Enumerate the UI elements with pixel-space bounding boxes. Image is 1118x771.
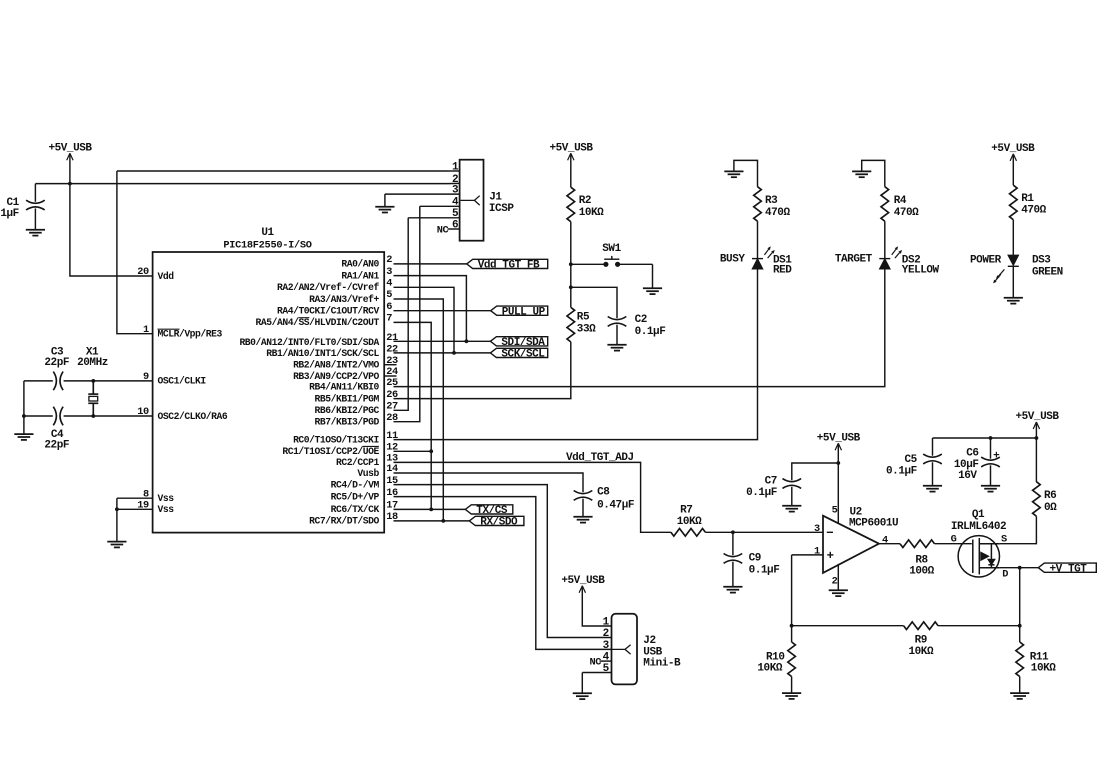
LED DS1 (RED) xyxy=(752,259,763,269)
wire R7 to U2 inverting input xyxy=(705,531,823,533)
wire U1 Vusb to C8 xyxy=(394,473,584,492)
wire J2 pin 5 to ground xyxy=(582,672,611,674)
svg-text:+5V_USB: +5V_USB xyxy=(48,142,92,154)
connector J1 female-pin symbol xyxy=(461,196,480,205)
svg-text:+5V_USB: +5V_USB xyxy=(561,575,605,587)
svg-text:4: 4 xyxy=(882,534,888,546)
svg-text:100Ω: 100Ω xyxy=(909,566,934,578)
power +5V_USB (R6) xyxy=(1033,422,1039,429)
wire to C2 xyxy=(571,287,617,318)
wire R4 to DS2 xyxy=(884,221,886,258)
svg-text:470Ω: 470Ω xyxy=(1021,204,1046,216)
svg-text:5: 5 xyxy=(386,289,392,301)
wire Vss to ground xyxy=(116,498,118,541)
svg-text:RC1/T1OSI/CCP2/UOE: RC1/T1OSI/CCP2/UOE xyxy=(282,446,379,457)
wire to C7 xyxy=(792,463,839,480)
capacitor C6 xyxy=(981,457,1000,460)
wire U1 RC2 Vdd_TGT_ADJ to R7 xyxy=(394,462,671,532)
svg-text:Vusb: Vusb xyxy=(357,468,379,479)
svg-text:OSC2/CLKO/RA6: OSC2/CLKO/RA6 xyxy=(158,411,228,422)
wire J1 ground stem xyxy=(384,194,386,206)
capacitor C2 xyxy=(608,317,627,320)
wire U1 Vss pin 8 xyxy=(117,497,153,499)
wire U1 RA5 to TX/CS net xyxy=(394,322,432,509)
net flag SDI/SDA xyxy=(490,337,547,346)
svg-text:RB5/KBI1/PGM: RB5/KBI1/PGM xyxy=(315,393,380,404)
wire R11 to ground xyxy=(1019,677,1021,693)
resistor R6 xyxy=(1033,482,1041,517)
net flag +V_TGT xyxy=(1038,563,1096,572)
wire R1 to DS3 xyxy=(1012,220,1014,256)
svg-text:R11: R11 xyxy=(1030,651,1049,663)
ground at C9 xyxy=(723,587,742,593)
svg-text:+5V_USB: +5V_USB xyxy=(991,143,1035,155)
U1 pin 24 stub xyxy=(384,375,396,377)
svg-text:SCK/SCL: SCK/SCL xyxy=(501,349,545,361)
wire U2 output to R8 xyxy=(879,543,900,545)
ground at C8 xyxy=(573,517,592,523)
svg-text:RC0/T1OSO/T13CKI: RC0/T1OSO/T13CKI xyxy=(293,434,379,445)
ground at J2 pin 5 xyxy=(573,693,592,699)
svg-text:R9: R9 xyxy=(915,634,927,646)
resistor R8 xyxy=(900,540,935,548)
capacitor C8 xyxy=(574,491,593,494)
svg-text:USB: USB xyxy=(643,646,662,658)
svg-text:0Ω: 0Ω xyxy=(1044,502,1057,514)
svg-text:R3: R3 xyxy=(765,195,778,207)
svg-text:C8: C8 xyxy=(597,487,610,499)
wire R3 to DS1 xyxy=(757,221,759,258)
svg-text:10µF: 10µF xyxy=(954,459,979,471)
wire J1 pin 4 (PGD) xyxy=(420,205,460,207)
capacitor C7 xyxy=(783,479,802,482)
svg-text:RB4/AN11/KBI0: RB4/AN11/KBI0 xyxy=(309,381,379,392)
svg-text:0.1µF: 0.1µF xyxy=(886,465,917,477)
svg-text:RB6/KBI2/PGC: RB6/KBI2/PGC xyxy=(315,405,380,416)
capacitor C5 xyxy=(923,454,942,457)
capacitor C4 xyxy=(53,407,56,426)
svg-text:TARGET: TARGET xyxy=(835,254,873,266)
wire node to R11 xyxy=(1019,626,1021,642)
svg-text:+5V_USB: +5V_USB xyxy=(549,142,593,154)
wire U2 pin 2 to ground xyxy=(837,564,839,590)
resistor R9 xyxy=(904,622,939,630)
wire crystal caps to ground xyxy=(23,381,25,434)
resistor R2 xyxy=(567,187,575,222)
svg-text:RED: RED xyxy=(773,265,792,277)
ground at J1 pin 3 xyxy=(375,207,394,213)
wire U2 + input to R9/R10 node xyxy=(791,555,793,626)
net flag RX/SDO xyxy=(469,516,524,525)
svg-text:RA3/AN3/Vref+: RA3/AN3/Vref+ xyxy=(309,294,379,305)
svg-text:+5V_USB: +5V_USB xyxy=(817,432,861,444)
svg-text:ICSP: ICSP xyxy=(489,203,514,215)
svg-text:RB7/KBI3/PGD: RB7/KBI3/PGD xyxy=(315,417,380,428)
wire U1 RC6 to TX/CS flag xyxy=(394,508,466,510)
wire DS3 to ground xyxy=(1012,266,1014,297)
node C7 branch junction xyxy=(836,461,840,465)
wire C4 to U1 OSC2 pin 10 xyxy=(64,415,153,417)
svg-text:Vss: Vss xyxy=(158,504,175,515)
node SCK/SCL junction xyxy=(452,351,456,355)
wire U1 RC1 stub to TX/CS net xyxy=(394,450,432,452)
wire J1 pin 3 to ground xyxy=(385,193,460,195)
wire +5V_USB to J2 pin 1 xyxy=(582,587,611,626)
svg-text:16V: 16V xyxy=(958,470,977,482)
wire C1 top stem xyxy=(34,184,36,202)
capacitor C9 xyxy=(724,554,743,557)
power +5V_USB (R1) xyxy=(1010,154,1016,161)
svg-text:C5: C5 xyxy=(904,454,917,466)
svg-text:R10: R10 xyxy=(766,651,784,663)
wire +5V_USB to R1 xyxy=(1012,156,1014,186)
node RX/SDO junction xyxy=(441,519,445,523)
svg-text:DS3: DS3 xyxy=(1032,254,1051,266)
wire DS1 to U1 RC0 pin 11 xyxy=(394,269,758,440)
wire J1 pin 2 stub xyxy=(448,182,460,184)
wire J1 pin 1 to U1 MCLR pin 1 xyxy=(117,171,153,334)
svg-text:7: 7 xyxy=(386,313,392,325)
svg-text:RB3/AN9/CCP2/VPO: RB3/AN9/CCP2/VPO xyxy=(293,371,379,382)
wire +5V_USB to R2 xyxy=(570,155,572,187)
ground at R3 (BUSY) xyxy=(724,171,743,177)
svg-text:Vdd: Vdd xyxy=(158,271,175,282)
svg-text:RC6/TX/CK: RC6/TX/CK xyxy=(331,504,380,515)
svg-text:RA5/AN4/SS/HLVDIN/C2OUT: RA5/AN4/SS/HLVDIN/C2OUT xyxy=(256,317,380,328)
ground at C2 xyxy=(607,345,626,351)
svg-text:RC5/D+/VP: RC5/D+/VP xyxy=(331,491,380,502)
svg-text:SDI/SDA: SDI/SDA xyxy=(501,337,545,349)
LED DS3 (GREEN) xyxy=(1008,255,1019,266)
svg-text:2: 2 xyxy=(386,254,392,266)
svg-text:G: G xyxy=(951,534,957,546)
ground at U2 pin 2 xyxy=(829,590,848,596)
capacitor C3 xyxy=(53,372,56,391)
wire drain node to R9/R11 node xyxy=(1019,568,1021,626)
svg-text:22: 22 xyxy=(386,344,398,356)
svg-text:R5: R5 xyxy=(577,312,590,324)
U1 RC1 UOE overline xyxy=(362,445,379,447)
wire U1 RC5 D+ to J2 pin 3 xyxy=(394,497,612,650)
resistor R3 xyxy=(754,187,762,222)
svg-text:2: 2 xyxy=(832,576,838,588)
crystal X1 xyxy=(88,381,98,416)
svg-text:21: 21 xyxy=(386,332,398,344)
svg-text:10KΩ: 10KΩ xyxy=(1031,663,1056,675)
LED DS2 (YELLOW) xyxy=(879,259,890,269)
net flag TX/CS xyxy=(465,505,513,514)
svg-text:C2: C2 xyxy=(635,314,647,326)
resistor R10 xyxy=(788,642,796,677)
wire OSC2 net left of C4 xyxy=(24,415,53,417)
wire U1 RC7 to RX/SDO flag xyxy=(394,520,470,522)
svg-text:RA2/AN2/Vref-/CVref: RA2/AN2/Vref-/CVref xyxy=(277,282,380,293)
node Vss junction xyxy=(115,507,119,511)
power +5V_USB (J2) xyxy=(579,586,585,593)
node SW1 branch junction xyxy=(569,262,573,266)
ground at crystal caps xyxy=(14,434,33,440)
switch SW1 xyxy=(571,256,653,266)
svg-text:0.47µF: 0.47µF xyxy=(597,500,634,512)
connector J2 female-pin symbol xyxy=(612,645,631,654)
wire U1 Vss pin 19 xyxy=(117,508,153,510)
op-amp U2 MCP6001U xyxy=(823,516,879,573)
net flag Vdd_TGT_FB xyxy=(467,259,548,268)
node TX/CS junction xyxy=(429,508,433,512)
svg-text:3: 3 xyxy=(386,266,392,278)
svg-text:IRLML6402: IRLML6402 xyxy=(951,521,1006,533)
svg-text:470Ω: 470Ω xyxy=(765,207,790,219)
connector J2 body xyxy=(612,614,638,685)
svg-text:C9: C9 xyxy=(749,552,761,564)
wire C3 to U1 OSC1 pin 9 xyxy=(64,380,153,382)
U1 pin 23 stub xyxy=(384,364,396,366)
svg-text:NC: NC xyxy=(589,657,601,669)
svg-text:1µF: 1µF xyxy=(0,208,18,220)
wire node to C9 xyxy=(732,532,734,555)
node C2 branch junction xyxy=(569,285,573,289)
wire J1 pin 1 stub xyxy=(448,170,460,172)
resistor R1 xyxy=(1010,185,1018,220)
wire U1 RA0 to Vdd_TGT_FB flag xyxy=(394,263,467,265)
transistor Q1 IRLML6402 (P-MOSFET) xyxy=(958,536,1000,577)
wire C5 top stem xyxy=(932,438,934,456)
wire R9 to R11 node xyxy=(938,625,1020,627)
wire U1 RA2 to SCK/SCL net xyxy=(394,287,455,353)
svg-text:MCP6001U: MCP6001U xyxy=(849,518,898,530)
wire DS2 to U1 RB4 pin 25 xyxy=(394,269,885,387)
wire U1 RA1 to SDI/SDA net xyxy=(394,276,467,342)
wire U1 RB1 to SCK/SCL flag xyxy=(394,352,491,354)
svg-text:TX/CS: TX/CS xyxy=(476,505,508,517)
svg-text:GREEN: GREEN xyxy=(1032,267,1063,279)
svg-text:3: 3 xyxy=(814,523,820,535)
ground at C6 xyxy=(981,486,1000,492)
wire C6 to ground xyxy=(990,465,992,485)
wire R2 to R5 (MCLR node) xyxy=(570,222,572,308)
wire J2 ground stem xyxy=(581,673,583,693)
resistor R7 xyxy=(671,529,706,537)
svg-text:RC7/RX/DT/SDO: RC7/RX/DT/SDO xyxy=(309,516,379,527)
node X1 bottom junction xyxy=(91,414,95,418)
svg-text:33Ω: 33Ω xyxy=(577,324,596,336)
power +5V_USB (U2) xyxy=(835,443,841,450)
J2 pin 4 NC stub xyxy=(600,660,612,662)
svg-text:Vdd_TGT_FB: Vdd_TGT_FB xyxy=(478,260,540,272)
wire C8 to ground xyxy=(582,499,584,517)
svg-text:OSC1/CLKI: OSC1/CLKI xyxy=(158,376,207,387)
ground at SW1 xyxy=(643,288,662,294)
svg-text:10KΩ: 10KΩ xyxy=(677,516,702,528)
capacitor C1 xyxy=(26,200,45,203)
svg-text:RB2/AN8/INT2/VMO: RB2/AN8/INT2/VMO xyxy=(293,360,379,371)
svg-text:R4: R4 xyxy=(894,195,907,207)
svg-text:22pF: 22pF xyxy=(44,357,69,369)
wire U1 RC4 D- to J2 pin 2 xyxy=(394,485,612,638)
node +5V/C5/C6 junction xyxy=(1035,436,1039,440)
svg-text:3: 3 xyxy=(603,640,610,652)
IC U1 PIC18F2550 body xyxy=(153,252,385,533)
ground at C1 xyxy=(26,230,45,236)
wire C9 to ground xyxy=(732,562,734,587)
wire Q1 drain to +V_TGT flag xyxy=(1000,567,1039,569)
ground at DS3 xyxy=(1004,298,1023,304)
node R9/R11 junction xyxy=(1018,624,1022,628)
wire C7 to ground xyxy=(791,487,793,506)
wire U1 RA3 to RX/SDO net xyxy=(394,299,444,521)
svg-text:RC4/D-/VM: RC4/D-/VM xyxy=(331,479,380,490)
svg-text:10KΩ: 10KΩ xyxy=(579,207,604,219)
svg-text:Mini-B: Mini-B xyxy=(643,658,681,670)
svg-text:C7: C7 xyxy=(765,476,777,488)
node R9/R10 junction xyxy=(790,624,794,628)
power +5V_USB (C1/Vdd) xyxy=(67,153,73,160)
node drain/R11 junction xyxy=(1018,566,1022,570)
svg-text:D: D xyxy=(1002,568,1008,580)
wire R8 to Q1 gate xyxy=(935,543,972,545)
svg-text:20MHz: 20MHz xyxy=(77,357,108,369)
svg-text:R2: R2 xyxy=(579,195,591,207)
svg-text:R1: R1 xyxy=(1021,193,1034,205)
svg-text:U2: U2 xyxy=(850,506,862,518)
svg-text:BUSY: BUSY xyxy=(720,254,745,266)
resistor R5 xyxy=(567,307,575,342)
C6 polarity plus sign xyxy=(994,452,1000,458)
svg-text:PIC18F2550-I/SO: PIC18F2550-I/SO xyxy=(223,240,311,252)
svg-text:Vss: Vss xyxy=(158,493,175,504)
ground at C7 xyxy=(782,506,801,512)
wire U2 non-inverting input xyxy=(792,554,823,556)
wire +5V_USB to U1 Vdd pin 20 xyxy=(70,155,153,276)
svg-text:2: 2 xyxy=(603,628,609,640)
svg-text:RA1/AN1: RA1/AN1 xyxy=(341,270,379,281)
net flag PULL_UP xyxy=(491,306,548,315)
wire +5V_USB to R6 xyxy=(1035,424,1037,482)
svg-text:YELLOW: YELLOW xyxy=(902,265,940,277)
ground at R4 (TARGET) xyxy=(852,171,871,177)
wire U1 RB0 to SDI/SDA flag xyxy=(394,340,491,342)
node R7/C9 junction xyxy=(731,530,735,534)
svg-text:MCLR/Vpp/RE3: MCLR/Vpp/RE3 xyxy=(158,329,223,340)
wire SW1 to ground xyxy=(652,264,654,288)
ground at U1 Vss xyxy=(107,542,126,548)
svg-text:+5V_USB: +5V_USB xyxy=(1015,411,1059,423)
svg-text:SW1: SW1 xyxy=(602,243,621,255)
node C4 left junction xyxy=(22,414,26,418)
connector J1 body xyxy=(460,160,484,241)
wire Q1 source to R6 xyxy=(1000,516,1037,544)
svg-text:POWER: POWER xyxy=(970,254,1002,266)
wire C2 to ground xyxy=(616,325,618,345)
svg-text:+V_TGT: +V_TGT xyxy=(1050,563,1088,575)
resistor R11 xyxy=(1016,642,1024,677)
svg-text:RC2/CCP1: RC2/CCP1 xyxy=(336,457,380,468)
ground at R11 xyxy=(1010,693,1029,699)
wire C5 to ground xyxy=(932,462,934,485)
ground at R10 xyxy=(782,693,801,699)
wire C6 top stem xyxy=(990,438,992,459)
svg-text:R8: R8 xyxy=(915,554,928,566)
wire +5V_USB to U2 pin 5 xyxy=(837,445,839,524)
svg-text:10KΩ: 10KΩ xyxy=(757,663,782,675)
svg-text:RB1/AN10/INT1/SCK/SCL: RB1/AN10/INT1/SCK/SCL xyxy=(266,348,379,359)
wire C1 / +5V_USB to J1 pin 2 xyxy=(35,183,447,185)
wire R10 node to R9 xyxy=(792,625,904,627)
wire OSC1 net left of C3 xyxy=(24,380,53,382)
node RC1/TX net junction xyxy=(429,449,433,453)
wire R5 to U1 RB5 pin 26 xyxy=(394,342,571,399)
resistor R4 xyxy=(881,187,889,222)
U1 RA5 SS overline xyxy=(298,317,309,319)
svg-text:22pF: 22pF xyxy=(44,440,69,452)
ground at C5 xyxy=(923,486,942,492)
svg-text:RA0/AN0: RA0/AN0 xyxy=(341,259,379,270)
node SDI/SDA junction xyxy=(465,339,469,343)
svg-text:RA4/T0CKI/C1OUT/RCV: RA4/T0CKI/C1OUT/RCV xyxy=(277,306,380,317)
svg-text:PULL_UP: PULL_UP xyxy=(502,306,546,318)
wire U1 RA4 to PULL_UP flag xyxy=(394,310,491,312)
wire MCLR net to J1 pin 1 xyxy=(117,170,448,172)
svg-text:J1: J1 xyxy=(489,191,502,203)
J1 pin 6 NC stub xyxy=(448,228,460,230)
wire R10 to ground xyxy=(791,677,793,693)
svg-text:4: 4 xyxy=(386,278,392,290)
wire C1 bottom stem xyxy=(34,208,36,229)
svg-text:RB0/AN12/INT0/FLT0/SDI/SDA: RB0/AN12/INT0/FLT0/SDI/SDA xyxy=(239,337,379,348)
svg-text:6: 6 xyxy=(386,301,392,313)
svg-text:R6: R6 xyxy=(1044,490,1056,502)
svg-text:0.1µF: 0.1µF xyxy=(635,326,666,338)
wire node to R10 xyxy=(791,626,793,642)
svg-text:0.1µF: 0.1µF xyxy=(746,487,777,499)
U1 MCLR overline xyxy=(158,328,180,330)
svg-text:U1: U1 xyxy=(261,227,274,239)
svg-text:NC: NC xyxy=(437,225,449,237)
svg-text:0.1µF: 0.1µF xyxy=(749,565,780,577)
wire ground to R3 xyxy=(734,160,758,186)
net flag SCK/SCL xyxy=(490,348,547,357)
wire J1 pin 5 to U1 RB6 pin 27 xyxy=(394,218,409,410)
wire J1 pin 5 (PGC) xyxy=(408,217,459,219)
node X1 top junction xyxy=(91,379,95,383)
svg-text:Q1: Q1 xyxy=(972,509,985,521)
svg-text:RX/SDO: RX/SDO xyxy=(480,517,518,529)
svg-text:5: 5 xyxy=(832,505,838,517)
wire J1 pin 4 to U1 RB7 pin 28 xyxy=(394,206,420,421)
svg-text:10KΩ: 10KΩ xyxy=(908,646,933,658)
node +5V_USB junction at C1 wire xyxy=(68,182,72,186)
wire ground to R4 xyxy=(862,160,885,186)
wire C5/C6 to +5V_USB xyxy=(933,437,1037,439)
svg-text:C6: C6 xyxy=(966,448,978,460)
svg-text:J2: J2 xyxy=(643,635,655,647)
svg-text:R7: R7 xyxy=(680,504,692,516)
node C6 junction xyxy=(989,436,993,440)
svg-text:1: 1 xyxy=(814,546,820,558)
power +5V_USB (R2) xyxy=(568,153,574,160)
svg-text:470Ω: 470Ω xyxy=(894,207,919,219)
